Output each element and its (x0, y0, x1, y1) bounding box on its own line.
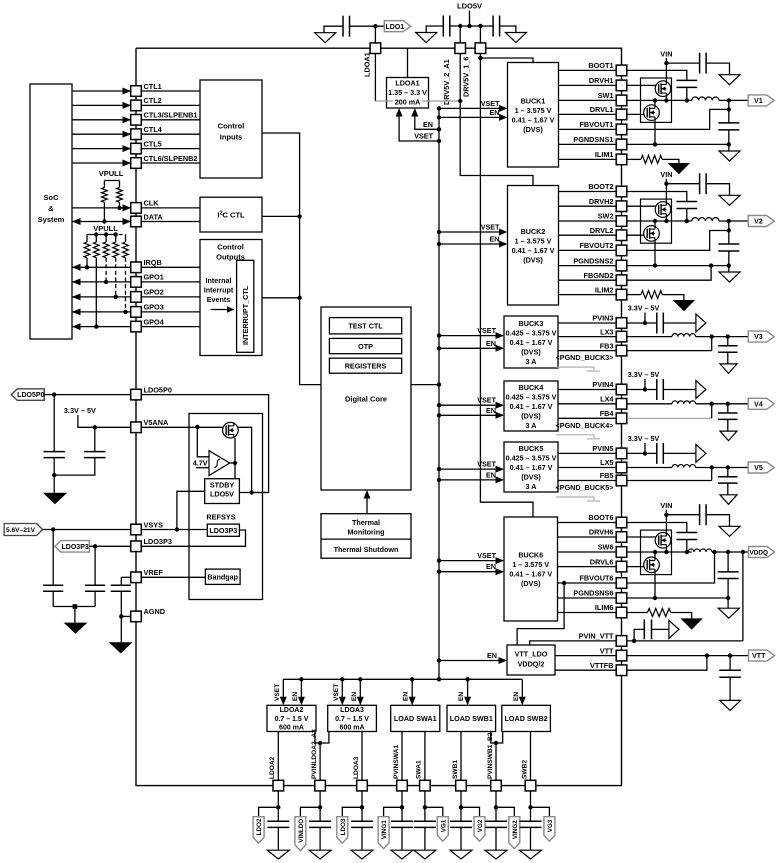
svg-text:1 – 3.575 V: 1 – 3.575 V (515, 236, 552, 245)
pin GPO1 (131, 277, 142, 288)
wire EN drop LDOA3 (359, 679, 361, 699)
wire V4 node (696, 403, 749, 405)
svg-text:VSET: VSET (414, 132, 433, 141)
wire PGND gray step (556, 435, 594, 439)
svg-text:Monitoring: Monitoring (347, 527, 384, 536)
svg-text:LDO5P0: LDO5P0 (144, 385, 172, 394)
wire dashed to GPO1 (105, 258, 107, 282)
svg-text:600 mA: 600 mA (340, 725, 365, 732)
transistor Q-REFSYS (223, 422, 239, 438)
wire FET right (238, 427, 251, 492)
wire VSYS (43, 529, 131, 531)
resistor R-ILIM2 (627, 294, 641, 296)
wire SW to low drain (654, 100, 656, 104)
wire DRVL1 gate (627, 113, 647, 115)
node junction (664, 550, 668, 554)
wire (686, 209, 688, 222)
wire buck1 top feed (480, 58, 533, 63)
capacitor C-out4 (727, 404, 729, 413)
svg-text:LDO5V: LDO5V (457, 2, 482, 11)
wire SoC to CTL4 (72, 133, 131, 135)
svg-text:BUCK5: BUCK5 (519, 444, 544, 453)
wire PVINSWB1_B2 tie (491, 732, 503, 744)
svg-text:VING1: VING1 (381, 820, 388, 839)
capacitor C-PVIN5 (656, 443, 658, 464)
regulator LDOA2 (267, 705, 316, 731)
wire SoC to CTL1 (72, 90, 131, 92)
svg-text:SoC: SoC (44, 193, 60, 202)
wire V3 node (696, 336, 749, 338)
regulator VTT_LDO (507, 645, 555, 675)
pin PVINLDOA2_A3 (315, 780, 326, 791)
capacitor C-out2 (718, 243, 739, 245)
wire (479, 26, 481, 43)
svg-text:FB4: FB4 (600, 409, 615, 418)
regulator BUCK5 (504, 442, 558, 492)
wire internal arrow (211, 309, 228, 311)
pin FB5 (616, 475, 627, 486)
wire BOOT6 (558, 522, 617, 524)
wire LDO3P3 output (141, 530, 246, 546)
regulator BUCK4 (504, 381, 558, 431)
svg-text:LDO5V: LDO5V (210, 490, 234, 499)
capacitor C-boot1 (676, 79, 697, 81)
capacitor C-VIN6 (699, 504, 701, 525)
regulator BUCK3 (504, 316, 558, 368)
pin CTL6/SLPENB2 (131, 158, 142, 169)
resistor R-ILIM6 (627, 612, 648, 614)
svg-text:(DVS): (DVS) (521, 579, 541, 588)
svg-text:PVIN_VTT: PVIN_VTT (579, 632, 614, 641)
wire EN into VTT_LDO (439, 660, 499, 662)
pin LDO3P3 (131, 541, 142, 552)
capacitor C-VIN1 (699, 53, 701, 74)
svg-text:BOOT2: BOOT2 (588, 182, 613, 191)
svg-text:PGNDSNS1: PGNDSNS1 (573, 135, 613, 144)
wire PGNDSNS1 (627, 143, 729, 145)
wire SoC to CTL6/SLPENB2 (72, 162, 131, 164)
svg-text:0.41 – 1.67 V: 0.41 – 1.67 V (510, 402, 553, 411)
wire VREF to Bandgap (141, 576, 205, 578)
svg-text:BUCK6: BUCK6 (518, 551, 543, 560)
node junction (653, 596, 657, 600)
wire STDBY output (239, 492, 268, 494)
svg-text:Bandgap: Bandgap (207, 573, 238, 582)
pin AGND (131, 611, 142, 622)
pin CTL5 (131, 143, 142, 154)
flag VING1 (384, 807, 402, 816)
inductor L2 (692, 218, 719, 221)
svg-text:VTTFB: VTTFB (590, 661, 614, 670)
node junction (664, 98, 668, 102)
svg-text:VINLDO: VINLDO (298, 819, 305, 843)
wire DRVL6 gate (627, 566, 647, 568)
flag VG3 (531, 807, 550, 816)
wire (141, 148, 200, 150)
pin VTT (616, 650, 627, 661)
svg-text:EN: EN (487, 651, 497, 660)
svg-text:0.7 – 1.5 V: 0.7 – 1.5 V (275, 716, 309, 723)
wire (53, 475, 55, 493)
svg-text:3 A: 3 A (526, 421, 537, 430)
wire VPULL rail (104, 180, 119, 182)
svg-text:EN: EN (490, 235, 500, 244)
svg-text:LX3: LX3 (600, 327, 613, 336)
capacitor C-out1 (718, 122, 739, 124)
svg-text:VG1: VG1 (440, 819, 447, 832)
pin SW6 (616, 547, 627, 558)
node junction (685, 219, 689, 223)
wire FB3 (627, 350, 712, 352)
wire PVIN3 (558, 322, 616, 324)
wire GPO3 (72, 311, 131, 313)
svg-text:LDO1: LDO1 (385, 24, 404, 31)
node LDO1 junction (373, 24, 377, 28)
svg-text:V5: V5 (754, 465, 763, 472)
svg-text:GPO1: GPO1 (144, 273, 164, 282)
svg-text:PVINSWB1_B2: PVINSWB1_B2 (487, 732, 494, 779)
svg-text:0.41 – 1.67 V: 0.41 – 1.67 V (512, 246, 555, 255)
svg-text:FBVOUT1: FBVOUT1 (579, 120, 613, 129)
svg-text:BUCK2: BUCK2 (521, 227, 546, 236)
node junction (685, 98, 689, 102)
wire BOOT2 (559, 191, 617, 193)
wire digital core to bus (411, 384, 439, 386)
ground (450, 850, 472, 859)
wire PVIN4 (558, 389, 616, 391)
pin VREF (131, 572, 142, 583)
ground (720, 431, 737, 441)
wire V5ANA to REFSYS (141, 426, 223, 428)
svg-text:VSET: VSET (481, 223, 500, 232)
pin GPO4 (131, 321, 142, 332)
svg-text:V2: V2 (754, 219, 763, 226)
svg-text:0.425 – 3.575 V: 0.425 – 3.575 V (506, 392, 557, 401)
node junction (653, 219, 657, 223)
pin VSYS (131, 524, 142, 535)
pin SW1 (616, 95, 627, 106)
wire DRVH1 gate (627, 84, 659, 86)
wire ILIM2 (559, 294, 617, 296)
pin PVINSWA1 (397, 780, 408, 791)
wire (141, 133, 200, 135)
wire FBGND2 (559, 279, 617, 281)
svg-text:0.425 – 3.575 V: 0.425 – 3.575 V (506, 328, 557, 337)
ground (505, 33, 526, 43)
svg-text:Interrupt: Interrupt (204, 286, 234, 295)
svg-text:LDOA3: LDOA3 (340, 707, 364, 714)
svg-text:VSET: VSET (477, 326, 496, 335)
svg-text:DRV5V_1_6: DRV5V_1_6 (462, 57, 471, 97)
svg-text:3.3V – 5V: 3.3V – 5V (628, 370, 660, 379)
capacitor C-DRV5V-left (442, 16, 444, 37)
wire dashed to GPO2 (115, 258, 117, 297)
svg-text:LOAD SWA1: LOAD SWA1 (394, 714, 437, 723)
svg-text:V4: V4 (754, 401, 763, 408)
ground (720, 700, 741, 710)
svg-text:0.41 – 1.67 V: 0.41 – 1.67 V (512, 115, 555, 124)
capacitor C-LDO5P0 (53, 395, 55, 452)
wire VIN node (665, 510, 667, 515)
pin PGNDSNS2 (616, 260, 627, 271)
wire (374, 26, 376, 43)
op-amp U-STDBY comparator (209, 451, 230, 476)
svg-text:FBGND2: FBGND2 (584, 271, 614, 280)
wire GPO1 (72, 281, 131, 283)
svg-text:OTP: OTP (358, 342, 373, 351)
svg-text:V1: V1 (754, 98, 763, 105)
flag V4 (748, 398, 774, 409)
power stage enclosure (641, 78, 672, 122)
wire VIN node (665, 179, 667, 184)
capacitor C-PVIN_VTT (643, 620, 645, 640)
block Control Outputs (200, 240, 262, 356)
pin FBVOUT6 (616, 578, 627, 589)
wire GPO4 (72, 326, 131, 328)
capacitor C-VSYS (52, 530, 54, 586)
ground (720, 364, 737, 374)
svg-text:(DVS): (DVS) (521, 411, 541, 420)
svg-text:BUCK3: BUCK3 (519, 319, 544, 328)
ground (719, 151, 740, 161)
ground (719, 195, 740, 205)
block SoC & System (30, 84, 72, 339)
node junction (467, 24, 471, 28)
wire PVIN_VTT (530, 641, 617, 645)
wire (141, 162, 200, 164)
wire LX4 (558, 403, 616, 405)
svg-text:EN: EN (486, 406, 496, 415)
wire PVIN input (644, 379, 646, 390)
wire (495, 791, 497, 807)
svg-text:DRVL6: DRVL6 (590, 557, 614, 566)
block REFSYS (189, 414, 263, 600)
wire PVIN_VTT input (627, 640, 743, 642)
wire SWA1 out (424, 732, 426, 781)
svg-text:DRV5V_2_A1: DRV5V_2_A1 (442, 59, 451, 105)
wire PGNDSNS2 (627, 265, 729, 267)
pin PVIN4 (616, 384, 627, 395)
svg-text:STDBY: STDBY (210, 480, 235, 489)
pin DRV5V_1_6 (475, 43, 486, 54)
svg-text:PVINSWA1: PVINSWA1 (393, 745, 400, 779)
svg-text:ILIM1: ILIM1 (595, 150, 614, 159)
svg-text:(DVS): (DVS) (523, 255, 543, 264)
svg-text:LX4: LX4 (600, 395, 614, 404)
pin VTTFB (616, 665, 627, 676)
svg-text:BUCK1: BUCK1 (521, 96, 546, 105)
wire VTTFB (555, 669, 616, 671)
pin DRVL1 (616, 109, 627, 120)
wire SW to low drain (654, 221, 656, 226)
wire EN drop LOAD SWB1 (467, 679, 469, 699)
pin PVINSWB1_B2 (491, 780, 502, 791)
wire PGNDSNS1 (559, 143, 617, 145)
svg-text:0.41 – 1.67 V: 0.41 – 1.67 V (510, 338, 553, 347)
power stage enclosure (641, 199, 672, 243)
pin BOOT6 (616, 517, 627, 528)
node junction rail (94, 232, 98, 236)
wire DRVL1 (559, 113, 617, 115)
wire FBVOUT6 (558, 582, 617, 584)
wire V5ANA input (78, 415, 131, 427)
wire (459, 26, 461, 43)
wire VIN to drain (665, 184, 667, 202)
svg-text:CTL4: CTL4 (144, 125, 163, 134)
pin SWB2 (525, 780, 536, 791)
svg-text:IRQB: IRQB (144, 258, 162, 267)
wire (141, 104, 200, 106)
svg-text:<PGND_BUCK4>: <PGND_BUCK4> (556, 421, 614, 430)
capacitor C-PVINSWB1_B2 (495, 807, 497, 821)
wire DRVH2 (559, 205, 617, 207)
wire FB5 (558, 480, 616, 482)
capacitor C-VIN2 (699, 173, 701, 194)
wire (141, 119, 200, 121)
ground (351, 850, 373, 859)
wire VDDQ to PVIN_VTT (742, 552, 744, 641)
wire SW1 (559, 99, 617, 101)
ground (719, 526, 740, 536)
wire PGNDSNS6 (558, 597, 617, 599)
ground (315, 33, 336, 43)
svg-text:CLK: CLK (144, 199, 160, 208)
regulator BUCK2 (508, 186, 559, 306)
supply triangle (696, 444, 706, 462)
svg-text:VDDQ/2: VDDQ/2 (518, 660, 545, 669)
wire PVIN5 (558, 452, 616, 454)
capacitor C-PVIN4 (656, 379, 658, 400)
flag VINLDO (300, 807, 320, 816)
flag VING2 (496, 807, 514, 816)
pin CTL4 (131, 129, 142, 140)
wire DRVL2 gate (627, 234, 647, 236)
svg-text:DRVH2: DRVH2 (589, 197, 614, 206)
wire FB4 (627, 417, 712, 419)
wire LDOA1 output gray (375, 100, 386, 102)
regulator BUCK6 (504, 517, 558, 621)
wire VTT (555, 655, 616, 657)
node junction (664, 219, 668, 223)
svg-text:VG3: VG3 (547, 819, 554, 832)
wire LDOA2 out (277, 732, 279, 781)
wire (319, 791, 321, 807)
wire FBGND2 (627, 266, 711, 281)
wire low source to PGND (654, 241, 656, 265)
ground filled (110, 643, 131, 653)
regulator LOAD SWB2 (502, 705, 551, 731)
wire drain-SW (665, 548, 667, 552)
pin SWA1 (420, 780, 431, 791)
wire drain-SW (665, 217, 667, 221)
svg-text:EN: EN (486, 470, 496, 479)
wire EN drop LDOA2 (300, 679, 302, 699)
svg-text:EN: EN (458, 692, 465, 701)
pin FBGND2 (616, 275, 627, 286)
regulator LDOA1 (387, 78, 429, 109)
wire PVINLDOA2_A3 tie (315, 732, 329, 744)
svg-text:LDOA1: LDOA1 (395, 79, 419, 88)
svg-text:VDDQ: VDDQ (750, 550, 768, 557)
svg-text:TEST CTL: TEST CTL (348, 322, 383, 331)
wire ILIM6 (558, 612, 617, 614)
wire FBVOUT2 (559, 249, 617, 251)
svg-text:4.7V: 4.7V (193, 458, 208, 467)
wire VSET drop LDOA3 (341, 679, 343, 699)
svg-text:LOAD SWB2: LOAD SWB2 (505, 714, 548, 723)
node junction (458, 24, 462, 28)
regulator LOAD SWB1 (447, 705, 496, 731)
wire cap join (53, 606, 95, 608)
node junction (117, 206, 121, 210)
svg-text:LOAD SWB1: LOAD SWB1 (450, 714, 493, 723)
wire LX5 (558, 467, 616, 469)
pin SW2 (616, 216, 627, 227)
svg-text:PVINLDOA2_A3: PVINLDOA2_A3 (311, 729, 318, 779)
svg-text:&: & (48, 204, 54, 213)
capacitor C-SWB2 (530, 807, 532, 821)
svg-text:CTL3/SLPENB1: CTL3/SLPENB1 (144, 111, 198, 120)
svg-text:VSET: VSET (477, 551, 496, 560)
wire control bus left (262, 133, 321, 385)
pin LX5 (616, 462, 627, 473)
pin CTL2 (131, 100, 142, 111)
supply triangle (696, 381, 706, 399)
svg-text:DRVH6: DRVH6 (589, 528, 614, 537)
pin DRVL6 (616, 561, 627, 572)
wire FB3 (558, 350, 616, 352)
svg-text:Inputs: Inputs (220, 133, 243, 142)
wire SWB2 out (530, 732, 532, 781)
ground filled (44, 493, 66, 503)
wire EN drop LOAD SWA1 (411, 679, 413, 699)
resistor R-VPULL2-1 (86, 235, 88, 243)
wire 4.7V input (196, 467, 209, 469)
transistor Q2-low (644, 226, 660, 242)
wire VPULL2 rail (87, 234, 112, 236)
svg-text:CTL6/SLPENB2: CTL6/SLPENB2 (144, 154, 198, 163)
flag VG1 (425, 807, 443, 816)
wire PGND gray step (556, 367, 594, 371)
node junction core-bus (437, 382, 441, 386)
pin GPO2 (131, 292, 142, 303)
inductor L1 (692, 97, 719, 100)
block Bandgap (205, 569, 240, 584)
svg-text:PGNDSNS2: PGNDSNS2 (573, 256, 613, 265)
svg-text:LDO3P3: LDO3P3 (209, 526, 237, 535)
wire DRVH6 gate (627, 536, 659, 538)
wire SW to low drain (654, 552, 656, 557)
pin PGNDSNS6 (616, 593, 627, 604)
svg-text:VSET: VSET (333, 684, 340, 701)
wire LDOA3 out (361, 732, 363, 781)
pin LX3 (616, 331, 627, 342)
capacitor C-LDOA3 (361, 807, 363, 821)
ground ILIM6 (682, 619, 702, 629)
svg-text:VIN: VIN (660, 50, 672, 59)
capacitor C-out6 (727, 552, 729, 572)
svg-text:FB5: FB5 (600, 471, 614, 480)
capacitor C-PVINSWA1 (401, 807, 403, 821)
svg-text:VTT: VTT (752, 653, 766, 660)
wire FBVOUT2 tap (627, 231, 729, 251)
flag VTT (749, 650, 775, 661)
wire VREF (121, 576, 131, 578)
svg-text:GPO3: GPO3 (144, 303, 164, 312)
wire GPO2 (72, 296, 131, 298)
power stage enclosure (641, 530, 672, 575)
ground (485, 850, 507, 859)
